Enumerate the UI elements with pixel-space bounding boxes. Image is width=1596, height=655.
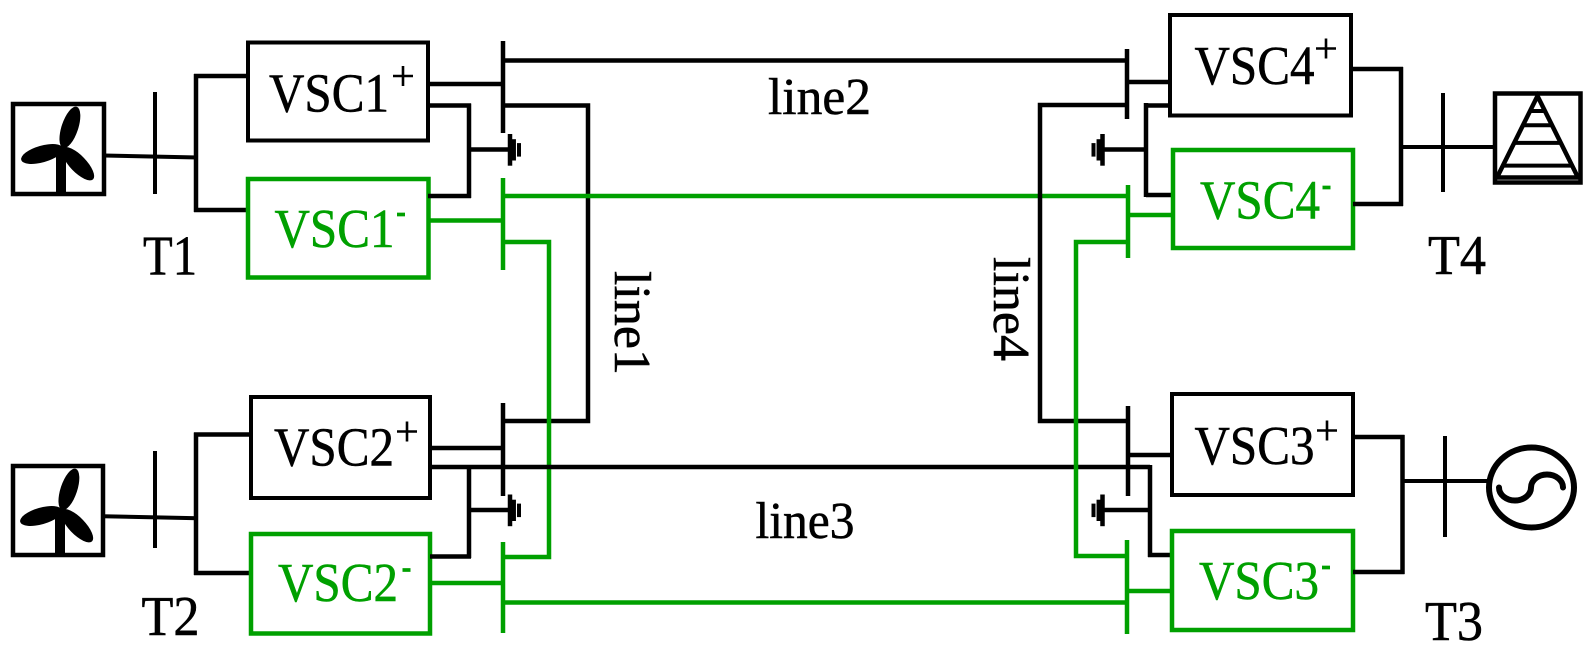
wire AC riser T1 (194, 74, 199, 212)
wire line3 neutral (430, 465, 1150, 470)
wire VSC4+ neutral out (1144, 103, 1170, 108)
converter VSC3- (1172, 531, 1353, 630)
wire to load T4 (1401, 145, 1495, 149)
wire turbine1 to junction (104, 156, 198, 158)
node DC bus B2 negative (501, 542, 506, 633)
node DC bus B2 positive (501, 403, 506, 496)
svg-text:line4: line4 (982, 257, 1039, 361)
bus bar T3 (1443, 436, 1447, 537)
svg-text:VSC1: VSC1 (275, 198, 395, 259)
node DC bus B1 positive (501, 41, 506, 133)
converter VSC2+ (251, 397, 430, 498)
converter VSC1+ (248, 43, 428, 141)
wire line2 (503, 58, 1127, 63)
wire AC riser T2 (194, 433, 199, 576)
wire to source T3 (1403, 479, 1491, 483)
wire negative tie line to VSC4- (503, 194, 1128, 199)
svg-text:line3: line3 (756, 493, 855, 550)
wire neutral into VSC3- (1148, 553, 1172, 558)
node DC bus B4 positive (1125, 49, 1130, 119)
wire VSC3- AC out (1353, 570, 1405, 575)
wire ground tap T1 (469, 147, 508, 152)
wire ground tap T4 (1104, 147, 1148, 152)
node DC bus B1 negative (501, 178, 506, 270)
wire VSC4+ AC out (1351, 67, 1403, 72)
ground G1 (510, 134, 519, 166)
ground G3 (1094, 495, 1103, 527)
wire VSC4- AC out (1353, 202, 1403, 207)
wire neutral into VSC2- (430, 554, 471, 559)
wire VSC3+ AC out (1353, 435, 1405, 440)
svg-text:T3: T3 (1425, 591, 1483, 653)
wire line1 positive pole (502, 106, 588, 422)
svg-text:VSC4: VSC4 (1195, 35, 1315, 96)
node DC bus B3 negative (1125, 540, 1130, 634)
wind turbine W2 (13, 466, 103, 555)
bus bar T2 (153, 451, 157, 548)
wire into VSC3+ (1128, 453, 1172, 458)
converter VSC2- (251, 534, 430, 634)
wire neutral into VSC4- (1146, 193, 1173, 198)
wire ground tap T3 (1104, 508, 1152, 513)
wire line3 negative (503, 600, 1127, 605)
svg-text:T2: T2 (142, 586, 200, 648)
bus bar T4 (1441, 93, 1445, 192)
wire neutral drop T3 (1148, 465, 1153, 557)
wire VSC2+ positive out (430, 446, 504, 451)
svg-text:line1: line1 (603, 271, 660, 375)
svg-text:VSC1: VSC1 (269, 63, 389, 124)
ground G4 (1094, 134, 1103, 166)
svg-text:VSC4: VSC4 (1200, 170, 1320, 231)
svg-text:T4: T4 (1428, 225, 1486, 287)
wire into VSC4- negative (1128, 213, 1173, 218)
svg-text:T1: T1 (143, 226, 197, 288)
wind turbine W1 (13, 104, 104, 194)
wire into VSC4+ (1127, 80, 1170, 85)
node DC bus B4 negative (1126, 185, 1131, 258)
wire into VSC2- (194, 571, 251, 576)
wire line1 negative pole (503, 242, 549, 557)
converter VSC4+ (1170, 15, 1351, 116)
AC source S3 (1489, 448, 1574, 528)
wire neutral drop T2 (467, 465, 472, 558)
svg-text:VSC3: VSC3 (1195, 415, 1315, 476)
converter VSC1- (248, 179, 429, 278)
ground G2 (510, 495, 519, 527)
load L4 (1495, 94, 1581, 183)
wire neutral into VSC1- (428, 194, 471, 199)
wire line4 positive pole (1040, 105, 1128, 421)
wire into VSC2+ (194, 432, 251, 437)
wire into VSC1+ (194, 74, 246, 79)
wire into VSC1- (194, 208, 246, 213)
wire AC riser T4 (1399, 67, 1404, 206)
svg-text:line2: line2 (768, 69, 871, 126)
wire ground tap T2 (469, 508, 508, 513)
wire VSC2- negative out (430, 581, 503, 586)
bus bar T1 (153, 92, 157, 194)
svg-text:VSC2: VSC2 (278, 552, 398, 613)
svg-text:VSC3: VSC3 (1199, 550, 1319, 611)
wire VSC1- negative out (428, 218, 503, 223)
converter VSC4- (1173, 150, 1353, 248)
wire neutral drop T4 (1144, 103, 1149, 197)
wire VSC1+ positive out (428, 82, 505, 87)
wire AC riser T3 (1400, 435, 1405, 574)
wire VSC1+ neutral out (428, 103, 471, 108)
wire neutral drop T1 (467, 104, 472, 199)
converter VSC3+ (1172, 394, 1353, 495)
wire into VSC3- negative (1127, 589, 1172, 594)
wire turbine2 to junction (103, 516, 198, 518)
node DC bus B3 positive (1126, 406, 1131, 496)
wire line4 negative pole (1076, 242, 1128, 556)
svg-text:VSC2: VSC2 (274, 417, 394, 478)
